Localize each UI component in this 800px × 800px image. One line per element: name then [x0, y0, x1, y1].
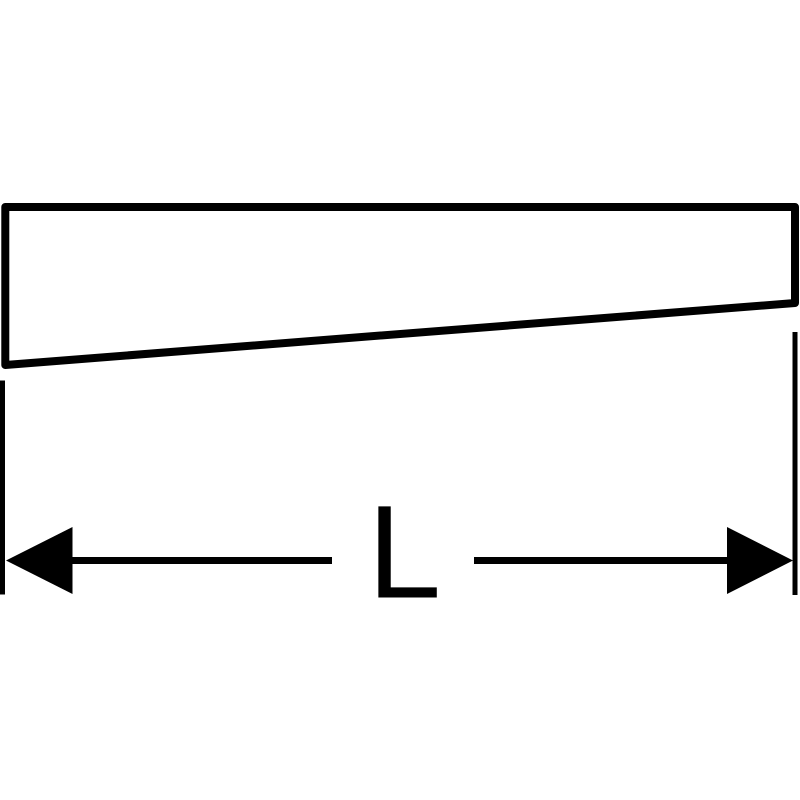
wedge outline: [5, 207, 795, 365]
left extension line: [0, 381, 5, 595]
dimension line right segment: [474, 557, 729, 564]
svg-text:L: L: [368, 479, 442, 627]
right extension line: [793, 332, 798, 595]
dimension line left segment: [70, 557, 332, 564]
left arrowhead: [6, 527, 73, 594]
right arrowhead: [727, 527, 793, 594]
